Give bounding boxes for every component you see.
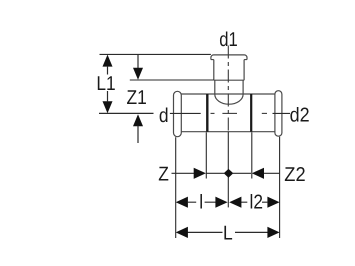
L left arrowhead <box>176 227 188 238</box>
l right arrowhead at centerline <box>215 197 227 208</box>
dimension L1 lower arrow <box>103 101 113 113</box>
centerline long dash at branch cross <box>222 112 237 114</box>
extension line d (right socket depth) <box>251 132 253 178</box>
extension line A (top of branch) <box>100 53 211 55</box>
svg-text:d2: d2 <box>290 105 310 127</box>
extension line C (branch press depth) <box>130 79 214 81</box>
Z arrowhead at left socket depth <box>194 168 206 179</box>
right press socket bead <box>275 91 282 137</box>
branch press zone bottom line <box>214 79 244 81</box>
svg-text:l: l <box>199 191 203 213</box>
dimension Z1 lower arrow (outside, below centerline) <box>133 114 143 126</box>
l left arrowhead at extension a <box>176 197 188 208</box>
centerline dash 2 <box>262 112 267 114</box>
branch bead (top outlet rim) <box>211 55 247 60</box>
dimension l / l2 row line <box>188 201 268 203</box>
branch upper walls <box>214 60 244 81</box>
d leader line through left bead <box>170 112 201 114</box>
svg-text:Z2: Z2 <box>284 164 305 186</box>
dimension L row line <box>187 231 269 233</box>
svg-text:Z1: Z1 <box>127 87 147 109</box>
svg-text:L1: L1 <box>96 73 115 95</box>
dimension Z1 upper arrow (outside, hanging from line A) <box>137 54 139 68</box>
svg-text:Z: Z <box>158 164 169 186</box>
right socket depth line <box>250 94 252 132</box>
extension line a (left end) <box>175 137 177 238</box>
svg-text:l2: l2 <box>250 191 264 213</box>
dimension Z row line <box>172 172 280 174</box>
svg-text:L: L <box>223 223 233 245</box>
l2 right arrowhead at extension e <box>267 197 279 208</box>
dimension L1 upper arrow <box>103 55 113 67</box>
center diamond (Z / Z2 junction) <box>224 169 234 178</box>
L right arrowhead <box>267 227 279 238</box>
svg-text:d: d <box>159 105 169 127</box>
tee body outline <box>181 94 275 132</box>
Z2 arrowhead at right socket depth <box>252 168 264 179</box>
d2 leader line through right bead <box>273 112 291 114</box>
left socket depth line <box>206 94 208 132</box>
branch-to-body fillet arc <box>215 94 243 104</box>
extension line e (right end) <box>279 137 281 238</box>
horizontal centerline segment B (left dimension terminator) <box>99 112 154 114</box>
left press socket bead <box>174 91 182 136</box>
branch lower walls <box>215 80 243 94</box>
extension line b (left socket depth) <box>205 132 207 178</box>
l2 left arrowhead at centerline <box>229 197 241 208</box>
centerline dash 1 <box>211 112 215 114</box>
branch vertical centerline <box>227 46 229 132</box>
svg-text:d1: d1 <box>219 29 238 51</box>
